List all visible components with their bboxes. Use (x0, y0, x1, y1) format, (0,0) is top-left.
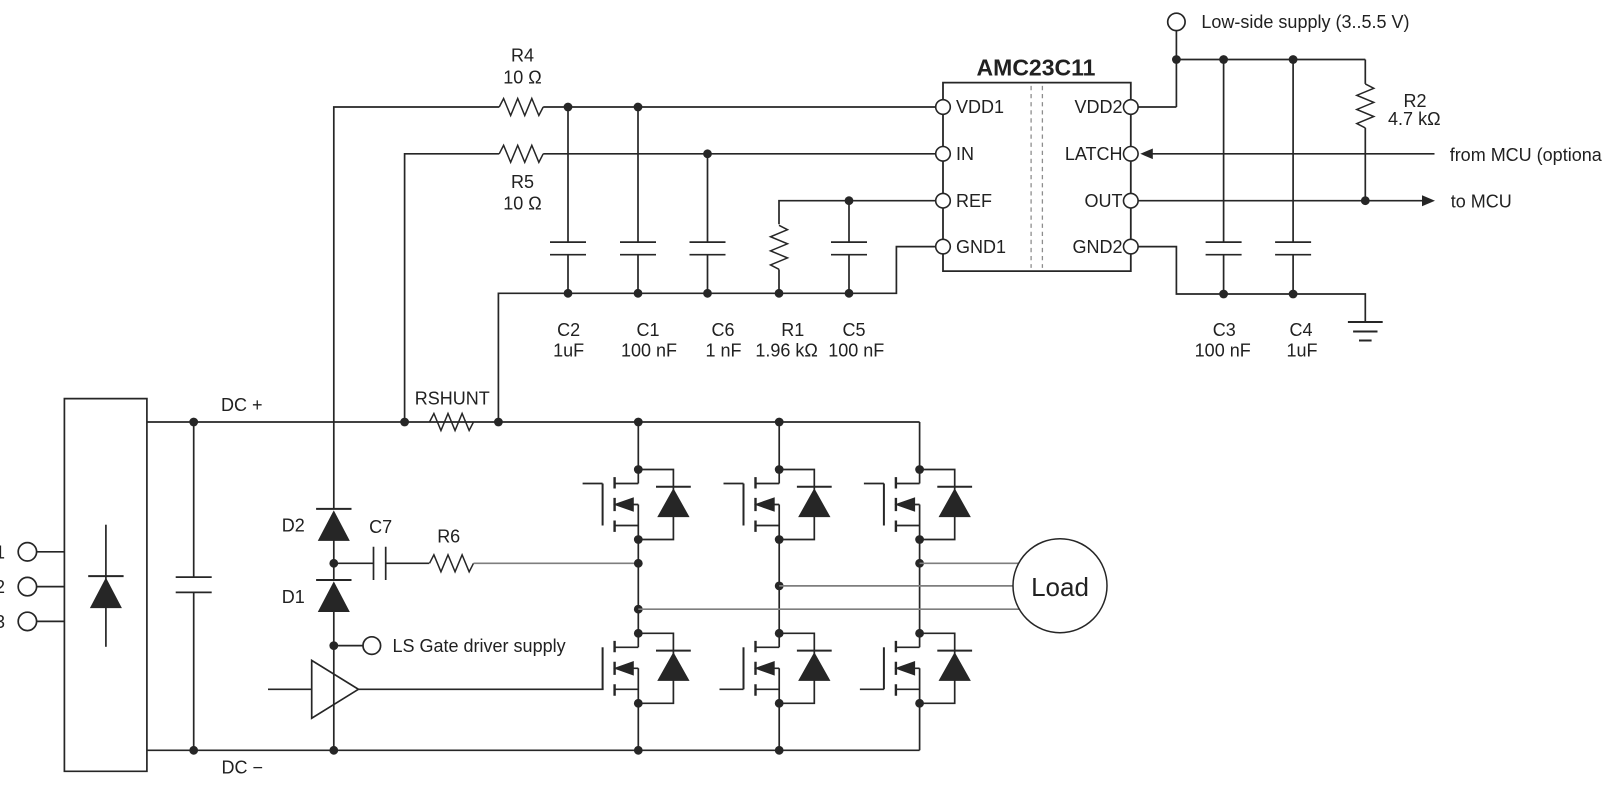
resistor R2 (1364, 60, 1366, 84)
svg-text:to MCU: to MCU (1451, 192, 1512, 212)
node leg 2 phase tap (775, 582, 784, 591)
node C2 bottom (564, 289, 573, 298)
svg-text:IN: IN (956, 144, 974, 164)
node REF/C5 tap (845, 196, 854, 205)
arrow to MCU (1422, 195, 1435, 206)
svg-text:4.7 kΩ: 4.7 kΩ (1388, 109, 1440, 129)
node leg 1 at DC- (634, 746, 643, 755)
svg-text:1: 1 (0, 542, 5, 562)
wire R6 to phase leg 1 (474, 562, 639, 564)
svg-text:3: 3 (0, 612, 5, 632)
pin OUT (1124, 193, 1139, 208)
node leg 1 phase tap (634, 605, 643, 614)
diode D2 (316, 508, 351, 510)
node leg 2 at DC+ (775, 418, 784, 427)
wire IN pin to R5 (543, 153, 936, 155)
node bus cap bottom (189, 746, 198, 755)
wire D1 anode to LS node (333, 612, 335, 646)
wire DC- rail (147, 749, 920, 751)
rectifier block (64, 399, 146, 772)
terminal low-side supply (1168, 13, 1185, 30)
node C7/D2/D1 junction (329, 559, 338, 568)
svg-text:C7: C7 (369, 517, 392, 537)
isolation barrier dashed lines (1030, 86, 1032, 268)
capacitor DC bus (193, 422, 195, 750)
node C1 top on VDD1 (634, 103, 643, 112)
wire driver output to leg1 gate (358, 688, 603, 690)
node R2 bottom on OUT (1361, 196, 1370, 205)
svg-text:OUT: OUT (1085, 191, 1123, 211)
svg-text:GND2: GND2 (1072, 237, 1122, 257)
node C3 bottom (1219, 290, 1228, 299)
svg-text:Load: Load (1031, 572, 1089, 602)
pin REF (936, 193, 951, 208)
gate driver input stub (268, 688, 312, 690)
resistor RSHUNT (430, 414, 474, 431)
resistor R4 (499, 99, 543, 116)
svg-text:C1: C1 (636, 320, 659, 340)
wire VDD1 pin to R4 (543, 106, 936, 108)
svg-text:VDD2: VDD2 (1074, 97, 1122, 117)
rectifier diode (105, 525, 107, 647)
pin GND1 (936, 239, 951, 254)
node C5 bottom (845, 289, 854, 298)
svg-text:Low-side supply (3..5.5 V): Low-side supply (3..5.5 V) (1201, 12, 1409, 32)
wire inverter leg 1 (637, 422, 639, 750)
node C4 bottom (1289, 290, 1298, 299)
wire supply vertical (1175, 31, 1177, 107)
pin LATCH (1124, 147, 1139, 162)
arrow into LATCH (1140, 149, 1153, 160)
svg-text:C3: C3 (1213, 320, 1236, 340)
node leg 2 at DC- (775, 746, 784, 755)
svg-text:VDD1: VDD1 (956, 97, 1004, 117)
svg-text:D2: D2 (282, 516, 305, 536)
node LS gate driver supply tap (329, 641, 338, 650)
transistor Q1 high-side (613, 477, 615, 532)
svg-text:AMC23C11: AMC23C11 (977, 55, 1096, 81)
node bus cap top (189, 418, 198, 427)
wire GND2 to ground (1138, 247, 1366, 322)
svg-text:GND1: GND1 (956, 237, 1006, 257)
transistor Q6 low-side (895, 641, 897, 696)
wire DC+ rail (147, 421, 920, 423)
wire inverter leg 2 (778, 422, 780, 750)
svg-text:D1: D1 (282, 587, 305, 607)
terminal 1 (18, 543, 36, 561)
wire VDD2 pin to supply (1138, 106, 1177, 108)
wire LS node to DC- (through driver) (333, 646, 335, 751)
pin VDD2 (1124, 100, 1139, 115)
svg-text:10 Ω: 10 Ω (503, 67, 541, 87)
terminal LS Gate driver supply (334, 645, 363, 647)
wire inverter leg 3 (919, 422, 921, 750)
pin VDD1 (936, 100, 951, 115)
svg-text:R6: R6 (437, 526, 460, 546)
svg-text:C4: C4 (1289, 320, 1312, 340)
svg-text:DC +: DC + (221, 395, 263, 415)
svg-text:1.96 kΩ: 1.96 kΩ (755, 341, 818, 361)
ground (1348, 321, 1383, 323)
node C6 top on IN (703, 149, 712, 158)
resistor R6 (430, 555, 474, 572)
svg-text:R4: R4 (511, 46, 534, 66)
svg-text:1uF: 1uF (553, 341, 584, 361)
node C1 bottom (634, 289, 643, 298)
capacitor C6 (707, 154, 709, 293)
node C6 bottom (703, 289, 712, 298)
wire GND1 pin to filter ground rail (498, 247, 936, 422)
capacitor C3 (1223, 60, 1225, 295)
terminal 2 (18, 577, 36, 595)
svg-text:REF: REF (956, 191, 992, 211)
transistor Q5 low-side (754, 641, 756, 696)
svg-text:RSHUNT: RSHUNT (415, 389, 490, 409)
wire phase 1 to load (638, 608, 1020, 610)
svg-text:100 nF: 100 nF (828, 341, 884, 361)
svg-text:C2: C2 (557, 320, 580, 340)
node supply rail/VDD2 (1172, 55, 1181, 64)
transistor Q4 low-side (613, 641, 615, 696)
wire R4 to D2 cathode (crosses DC+) (334, 107, 499, 509)
pin IN (936, 147, 951, 162)
resistor R5 (499, 145, 543, 162)
svg-text:2: 2 (0, 577, 5, 597)
svg-text:1 nF: 1 nF (705, 341, 741, 361)
wire D2 anode to C7 node (333, 540, 335, 563)
gate driver buffer (312, 660, 359, 718)
wire REF pin to R1 (779, 201, 937, 225)
svg-text:100 nF: 100 nF (1195, 341, 1251, 361)
terminal 3 (18, 612, 36, 630)
svg-text:1uF: 1uF (1286, 341, 1317, 361)
svg-text:from MCU (optional): from MCU (optional) (1450, 145, 1602, 165)
capacitor C1 (crosses IN line) (637, 107, 639, 293)
op-amp U1 AMC23C11 body (943, 83, 1131, 272)
capacitor C4 (1292, 60, 1294, 295)
wire phase 3 to load (920, 562, 1022, 564)
svg-text:10 Ω: 10 Ω (503, 194, 541, 214)
node C2 top on VDD1 (564, 103, 573, 112)
svg-text:DC −: DC − (222, 758, 264, 778)
svg-text:R2: R2 (1403, 91, 1426, 111)
svg-text:LATCH: LATCH (1065, 144, 1123, 164)
transistor Q2 high-side (754, 477, 756, 532)
node RSHUNT right (494, 418, 503, 427)
wire phase 2 to load (779, 585, 1014, 587)
capacitor C7 (334, 562, 374, 564)
wire supply rail (1176, 59, 1365, 61)
pin GND2 (1124, 239, 1139, 254)
node leg 3 phase tap (915, 559, 924, 568)
svg-text:C6: C6 (711, 320, 734, 340)
transistor Q3 high-side (895, 477, 897, 532)
node C3 top (1219, 55, 1228, 64)
svg-text:C5: C5 (842, 320, 865, 340)
wire R5 to DC+ rail (405, 154, 500, 422)
resistor R1 (771, 225, 788, 269)
svg-text:LS Gate driver supply: LS Gate driver supply (393, 636, 566, 656)
node leg 1 at DC+ (634, 418, 643, 427)
node R6 tap on leg 1 (634, 559, 643, 568)
node C4 top (1289, 55, 1298, 64)
capacitor C5 (848, 201, 850, 294)
node RSHUNT left (400, 418, 409, 427)
wire LATCH from MCU (1150, 153, 1435, 155)
node chain at DC- (329, 746, 338, 755)
node R1 bottom (775, 289, 784, 298)
diode D1 (333, 563, 335, 580)
svg-text:100 nF: 100 nF (621, 341, 677, 361)
svg-text:R1: R1 (781, 320, 804, 340)
wire OUT to MCU (1138, 200, 1422, 202)
capacitor C2 (567, 107, 569, 293)
load (1013, 539, 1107, 633)
svg-text:R5: R5 (511, 172, 534, 192)
